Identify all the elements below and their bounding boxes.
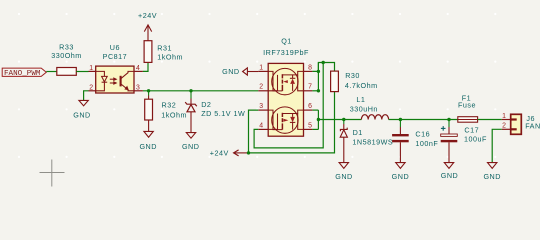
GND flag at Q1 pin 1 (222, 67, 258, 76)
wire Q1 pin4 gate branch (254, 63, 323, 148)
svg-text:GND: GND (335, 172, 352, 181)
svg-text:3: 3 (136, 85, 140, 92)
power +24V (left arrow) (210, 149, 249, 158)
junction (D2 tap) (189, 89, 192, 92)
junction output tap (317, 118, 320, 121)
svg-text:GND: GND (73, 111, 90, 120)
power +24V (top) (138, 11, 157, 41)
svg-text:100nF: 100nF (415, 139, 438, 148)
svg-text:GND: GND (483, 172, 500, 181)
svg-text:C16: C16 (415, 129, 430, 138)
wire F1 to J6 pin1 (478, 119, 502, 121)
junction (R32 tap) (147, 89, 150, 92)
ground (U6 pin2) (73, 100, 90, 119)
svg-text:GND: GND (182, 142, 199, 151)
wire U6 pin4 up to R31 (143, 62, 148, 71)
svg-text:GND: GND (441, 171, 458, 180)
sheet origin cross marker (40, 160, 65, 187)
svg-text:1N5819WS: 1N5819WS (352, 137, 393, 146)
svg-text:FAN: FAN (525, 121, 540, 130)
wire Q1 pins 7,8 drain tie (312, 63, 334, 72)
schottky diode D1 (340, 120, 393, 163)
pin 1 (89, 70, 96, 72)
net label FANO_PWM (2, 68, 46, 78)
ground (C17) (441, 163, 458, 181)
Q1 pin numbers (259, 64, 312, 129)
ground (R32) (139, 131, 156, 151)
pin 4 (134, 70, 143, 72)
wire R32 to GND (148, 120, 150, 131)
svg-text:330uHn: 330uHn (350, 105, 378, 114)
svg-text:PC817: PC817 (103, 52, 127, 61)
svg-text:+24V: +24V (138, 11, 157, 20)
ground (C16) (392, 163, 409, 182)
junction C16 (399, 118, 402, 121)
wire R33 to U6 pin 1 (76, 71, 88, 73)
svg-text:4: 4 (136, 65, 140, 72)
connector J6 (502, 113, 540, 134)
ground (D2) (182, 133, 199, 151)
bottom P-MOSFET (268, 107, 303, 133)
svg-text:1: 1 (259, 64, 263, 71)
resistor R30 (331, 71, 378, 92)
fuse F1 (458, 93, 478, 122)
wire U6 pin2 to GND (84, 91, 89, 101)
junction D1 (342, 118, 345, 121)
wire +24V run to R30 bottom (249, 92, 335, 153)
opto-coupler U6 PC817 (89, 43, 143, 93)
top N-MOSFET (268, 68, 303, 94)
wire down to D2 (190, 91, 192, 99)
Q1 pin stubs (258, 71, 312, 129)
wire Q1 pin3 to +24V junction (249, 110, 259, 153)
svg-text:2: 2 (502, 123, 506, 130)
svg-text:U6: U6 (110, 43, 120, 52)
svg-text:GND: GND (139, 142, 156, 151)
svg-text:8: 8 (308, 64, 312, 71)
junction C17/F1 (447, 118, 450, 121)
wire L1 to F1 (389, 119, 458, 121)
pin 3 (134, 90, 143, 92)
junction +24V (247, 151, 250, 154)
wire U6 pin3 to Q1 pin2 (143, 90, 258, 92)
LED inside U6 (96, 71, 117, 90)
wire down to R32 (148, 91, 150, 96)
svg-text:1kOhm: 1kOhm (161, 111, 187, 120)
resistor R32 (145, 99, 187, 120)
svg-text:4.7kOhm: 4.7kOhm (345, 81, 378, 90)
wire label to R33 (46, 71, 57, 73)
zener diode D2 (185, 100, 245, 133)
svg-text:GND: GND (222, 67, 239, 76)
svg-text:R30: R30 (345, 71, 360, 80)
svg-text:+24V: +24V (210, 149, 229, 158)
svg-text:1kOhm: 1kOhm (157, 52, 183, 61)
svg-text:D1: D1 (353, 128, 363, 137)
wire Q1 pins 5,6 output tie (317, 110, 319, 129)
resistor R33 (51, 43, 82, 76)
svg-text:1: 1 (89, 65, 93, 72)
svg-text:4: 4 (259, 122, 263, 129)
svg-text:7: 7 (308, 84, 312, 91)
svg-text:Fuse: Fuse (458, 101, 476, 110)
transistor Q1 IRF7319PbF (258, 37, 312, 137)
grid dots (18, 13, 497, 158)
svg-text:FANO_PWM: FANO_PWM (4, 70, 41, 78)
svg-text:R32: R32 (162, 100, 177, 109)
photo-transistor inside U6 (121, 71, 134, 90)
inductor L1 (350, 95, 389, 119)
svg-text:6: 6 (308, 103, 312, 110)
svg-text:C17: C17 (464, 126, 479, 135)
wire output to L1 (318, 119, 361, 121)
svg-text:Q1: Q1 (281, 37, 292, 46)
resistor R31 (144, 41, 183, 63)
svg-text:330Ohm: 330Ohm (51, 51, 82, 60)
svg-text:5: 5 (308, 122, 312, 129)
svg-text:1: 1 (502, 113, 506, 120)
svg-text:2: 2 (259, 84, 263, 91)
junction pin8 (317, 70, 320, 73)
junction rail/gate branch (322, 61, 325, 64)
svg-text:IRF7319PbF: IRF7319PbF (263, 48, 309, 57)
svg-text:D2: D2 (201, 100, 211, 109)
svg-text:GND: GND (392, 172, 409, 181)
junction pin7 (317, 89, 320, 92)
svg-text:L1: L1 (356, 95, 365, 104)
svg-text:R31: R31 (157, 43, 172, 52)
ground (D1) (335, 163, 352, 182)
ground (J6 pin2) (483, 163, 500, 182)
capacitor C17 (polarized) (441, 120, 487, 163)
svg-text:3: 3 (259, 103, 263, 110)
svg-text:2: 2 (89, 85, 93, 92)
capacitor C16 (392, 120, 438, 163)
svg-text:100uF: 100uF (464, 134, 487, 143)
wire J6 pin2 to GND (492, 129, 502, 162)
svg-text:ZD 5.1V 1W: ZD 5.1V 1W (201, 109, 245, 118)
pin 2 (89, 90, 96, 92)
